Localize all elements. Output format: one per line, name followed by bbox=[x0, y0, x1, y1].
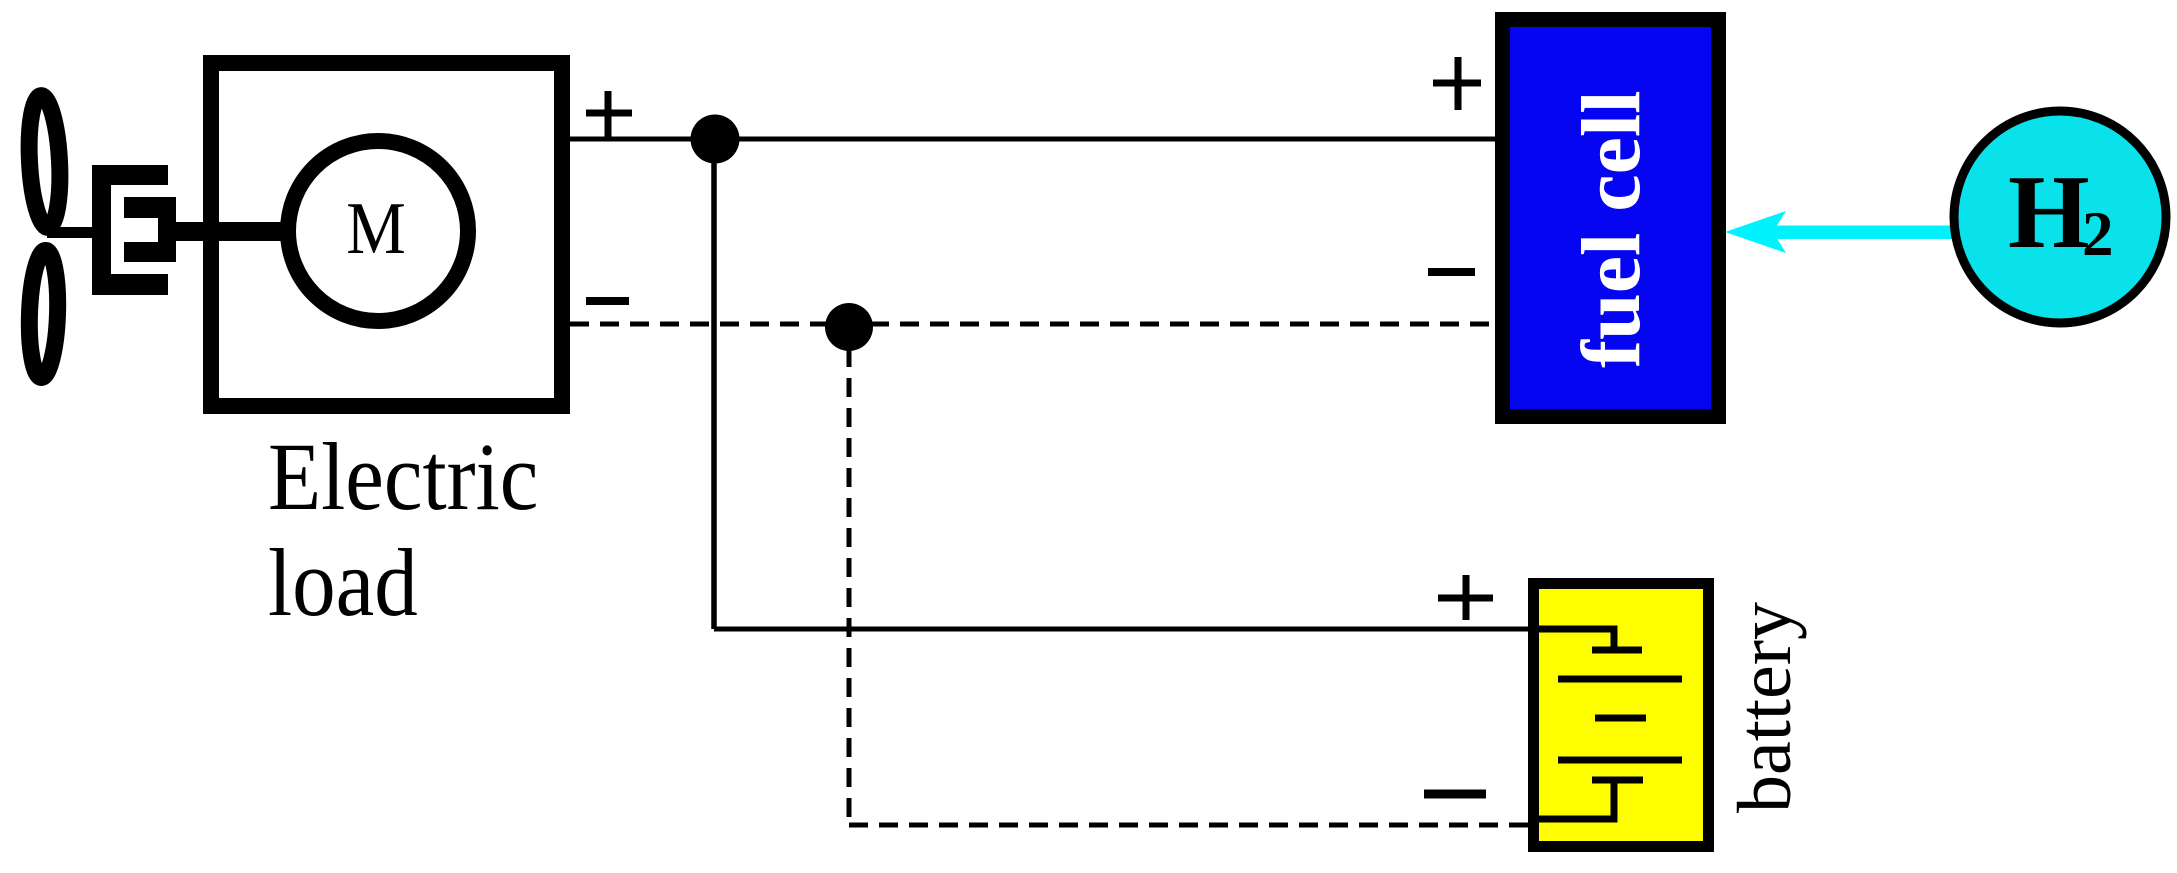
plus sign at fuel cell bbox=[1433, 57, 1481, 110]
svg-text:load: load bbox=[268, 529, 418, 636]
battery plate short 3 bbox=[1592, 777, 1643, 784]
wire negative dashed load to fuel cell bbox=[570, 322, 1498, 327]
coupling outer bracket bbox=[92, 165, 111, 295]
motor circle bbox=[288, 141, 468, 321]
wire vertical solid from positive node bbox=[711, 139, 717, 629]
hydrogen source circle H2 bbox=[1954, 111, 2166, 323]
battery positive lead bbox=[1539, 629, 1614, 650]
propeller blade bottom bbox=[27, 250, 59, 378]
wire solid to battery positive bbox=[714, 627, 1533, 632]
hydrogen flow arrow bbox=[1725, 211, 1958, 253]
svg-text:fuel cell: fuel cell bbox=[1565, 90, 1658, 368]
battery plate long 1 bbox=[1558, 676, 1682, 683]
battery plate long 2 bbox=[1558, 757, 1682, 764]
svg-text:Electric: Electric bbox=[268, 423, 538, 530]
propeller blade top bbox=[26, 95, 63, 228]
svg-text:battery: battery bbox=[1723, 602, 1807, 813]
motor shaft bbox=[176, 222, 290, 241]
minus sign at battery bbox=[1424, 790, 1486, 799]
junction node positive bbox=[691, 115, 740, 164]
battery plate short 2 bbox=[1595, 715, 1646, 722]
propeller hub shaft bbox=[47, 227, 96, 238]
wire vertical dashed from negative node bbox=[847, 348, 852, 825]
minus sign at load box bbox=[586, 297, 629, 305]
wire dashed to battery negative bbox=[849, 823, 1533, 828]
svg-text:2: 2 bbox=[2082, 199, 2114, 269]
electric load box bbox=[211, 63, 562, 406]
fuel cell box bbox=[1503, 20, 1719, 417]
coupling inner jaw bbox=[124, 197, 176, 218]
plus sign at load box bbox=[586, 91, 632, 138]
battery negative lead bbox=[1539, 780, 1614, 819]
plus sign at battery bbox=[1438, 575, 1493, 620]
svg-text:H: H bbox=[2008, 153, 2090, 270]
minus sign at fuel cell bbox=[1428, 268, 1475, 276]
battery plate short 1 bbox=[1592, 647, 1642, 654]
wire positive load to fuel cell bbox=[570, 137, 1498, 142]
battery box bbox=[1534, 584, 1709, 847]
svg-text:M: M bbox=[346, 188, 406, 270]
junction node negative bbox=[825, 303, 873, 351]
